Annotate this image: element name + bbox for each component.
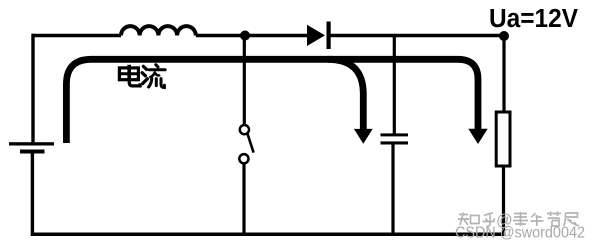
resistor R1 body: [496, 112, 510, 166]
char 落: [547, 212, 561, 227]
wire output node to resistor: [502, 36, 505, 113]
inductor L1: [121, 26, 196, 35]
current arrowhead at capacitor: [354, 129, 373, 144]
char 华: [531, 213, 544, 226]
current flow thick path (battery to load): [66, 59, 478, 143]
char 知: [458, 213, 469, 226]
diode D1 triangle: [307, 25, 325, 46]
svg-text:Ua=12V: Ua=12V: [489, 5, 578, 33]
svg-text:CSDN @sword0042: CSDN @sword0042: [455, 225, 585, 242]
wire inductor to diode: [196, 34, 308, 37]
switch S1 bottom terminal: [239, 154, 248, 163]
battery BT1 long plate: [9, 142, 54, 145]
label 流 (current char 2, drawn): [142, 65, 165, 88]
wire diode to output node: [331, 34, 505, 37]
char 繁: [513, 212, 528, 226]
wire resistor to bottom: [502, 166, 505, 236]
node junction dot (switch branch): [240, 31, 250, 41]
wire left vertical (battery top): [31, 34, 34, 142]
capacitor C1 top plate: [381, 133, 409, 136]
watermark line1 知乎 @繁华落尽 (drawn gray): [458, 212, 579, 230]
wire bottom horizontal: [32, 232, 506, 236]
wire capacitor to bottom: [391, 145, 394, 237]
char 尽: [564, 213, 580, 226]
wire switch to bottom: [242, 163, 245, 236]
switch S1 top terminal: [240, 125, 249, 134]
wire battery to bottom: [31, 154, 34, 237]
battery BT1 short plate: [20, 150, 45, 154]
wire switch branch top: [243, 34, 246, 125]
switch S1 blade: [247, 133, 253, 152]
wire top-left horizontal: [32, 34, 121, 37]
capacitor C1 bottom plate: [381, 141, 409, 144]
wire capacitor branch top: [393, 34, 396, 134]
diode D1 cathode bar: [327, 22, 331, 50]
label 电 (current char 1, drawn): [119, 65, 140, 86]
current arrowhead at resistor: [468, 129, 487, 144]
char 乎: [483, 213, 496, 226]
current flow thick branch (to capacitor): [328, 59, 364, 129]
node output junction dot: [499, 31, 509, 41]
